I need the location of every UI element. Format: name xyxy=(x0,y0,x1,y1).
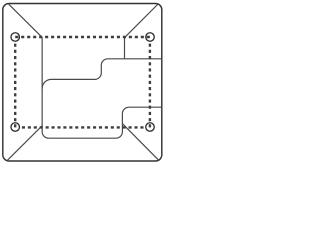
centerline dashed right edge xyxy=(149,44,151,128)
hole circle top-right xyxy=(146,33,155,42)
inner step outline: S-curve shelf to upper right ledge xyxy=(42,59,162,89)
corner chamfer edge bottom-left xyxy=(7,126,42,161)
centerline dashed top edge xyxy=(15,36,150,38)
hole circle bottom-left xyxy=(11,123,20,132)
corner chamfer edge bottom-right xyxy=(122,124,158,160)
centerline dashed left edge xyxy=(14,44,16,128)
inner wall outline: left side, bottom shelf, step up to right ledge xyxy=(42,37,162,138)
centerline dashed bottom edge xyxy=(22,126,144,128)
outer body outline (rounded rectangle) xyxy=(3,4,162,162)
corner chamfer edge top-left xyxy=(8,4,42,37)
hole circle bottom-right xyxy=(146,123,155,132)
hole circle top-left xyxy=(11,33,20,42)
corner chamfer edge top-right xyxy=(125,4,159,59)
